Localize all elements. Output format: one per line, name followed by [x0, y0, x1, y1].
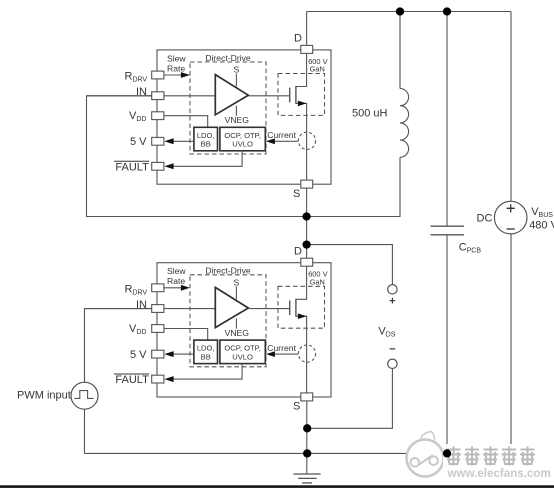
svg-text:S: S — [293, 188, 300, 200]
svg-text:5 V: 5 V — [130, 136, 147, 148]
svg-text:UVLO: UVLO — [232, 352, 253, 361]
block LDO BB (U1) — [194, 127, 218, 151]
page bottom border line — [0, 485, 554, 488]
svg-text:www.elecfans.com: www.elecfans.com — [447, 467, 551, 480]
label VNEG and stub below driver (U2) — [235, 318, 237, 328]
svg-text:PWM input: PWM input — [17, 390, 71, 402]
svg-text:OCP, OTP,: OCP, OTP, — [224, 344, 260, 353]
svg-text:LDO,: LDO, — [197, 131, 215, 140]
svg-text:VBUS: VBUS — [531, 206, 553, 219]
label VNEG and stub below driver (U1) — [235, 106, 237, 116]
watermark elecfans logo — [407, 432, 444, 477]
svg-text:GaN: GaN — [310, 277, 325, 286]
wire capacitor CPCB to bottom rail — [446, 235, 448, 454]
wire PWM source to bottom rail — [84, 409, 86, 453]
svg-text:Rate: Rate — [167, 63, 185, 73]
GaN transistor Q (U1) — [296, 53, 307, 86]
wire IN to driver input (U2) — [87, 308, 216, 310]
DC source VBUS 480 V — [494, 201, 527, 234]
svg-text:DC: DC — [477, 213, 493, 225]
wire RDRV to slew-rate block (U2) — [164, 287, 183, 289]
svg-text:BB: BB — [201, 352, 211, 361]
wire switch node vertical S1-D2 — [306, 188, 308, 258]
capacitor CPCB — [431, 225, 465, 227]
current sensor dashed circle (U2) — [298, 345, 315, 362]
pin FAULT (U2) — [152, 375, 164, 383]
pin FAULT (U1) — [152, 162, 164, 170]
dashed box GaN FET (U2) — [278, 286, 325, 328]
wire VDD to LDO (U1) — [164, 116, 208, 128]
svg-text:VDS: VDS — [378, 325, 395, 338]
pin IN (U1) — [152, 92, 164, 100]
block OCP OTP UVLO (U1) — [220, 127, 265, 151]
svg-text:Current: Current — [267, 130, 296, 140]
wire right rail upper (top rail to DC source) — [510, 12, 512, 202]
block OCP OTP UVLO (U2) — [220, 340, 265, 364]
svg-text:Slew: Slew — [167, 266, 186, 276]
svg-text:Direct-Drive: Direct-Drive — [205, 53, 251, 63]
wire current sense to OCP (U1) — [273, 140, 298, 142]
pin S (U2) — [301, 393, 313, 401]
svg-text:FAULT: FAULT — [115, 161, 149, 173]
driver amplifier triangle (U1) — [215, 75, 248, 115]
svg-text:VNEG: VNEG — [225, 328, 250, 338]
VDS plus probe terminal — [388, 285, 397, 294]
wire driver output to gate (U1) — [248, 95, 289, 97]
wire LDO to 5V pin (U2) — [174, 353, 194, 355]
svg-text:RDRV: RDRV — [125, 71, 148, 84]
pin 5V (U2) — [152, 350, 164, 358]
current sensor dashed circle (U1) — [298, 132, 315, 149]
wire switch node to VDS plus probe — [307, 245, 393, 285]
wire VDS minus probe to source node — [307, 369, 392, 429]
pin VDD (U2) — [152, 325, 164, 333]
svg-text:UVLO: UVLO — [232, 140, 253, 149]
PWM source circle with pulse symbol — [71, 382, 98, 409]
inductor L 500 uH — [399, 12, 401, 89]
wire right rail lower (DC source to bottom rail) — [510, 234, 512, 454]
svg-text:BB: BB — [201, 140, 211, 149]
watermark chinese characters — [443, 444, 538, 468]
pin VDD (U1) — [152, 112, 164, 120]
wire VDD to LDO (U2) — [164, 329, 208, 341]
wire bottom ground rail — [85, 452, 512, 454]
svg-text:D: D — [294, 246, 302, 258]
svg-text:5 V: 5 V — [130, 349, 147, 361]
pin D (U2) — [301, 258, 313, 266]
junction dot source node / VDS- — [303, 424, 311, 432]
svg-text:D: D — [294, 33, 302, 45]
svg-text:GaN: GaN — [310, 65, 325, 74]
junction dot switch node / VDS+ — [302, 240, 310, 248]
svg-text:S: S — [234, 277, 240, 287]
svg-text:FAULT: FAULT — [115, 374, 149, 386]
svg-text:S: S — [293, 401, 300, 413]
VDS minus probe terminal — [390, 348, 396, 350]
wire top bus rail — [307, 11, 511, 13]
ground symbol — [294, 473, 321, 475]
wire S2 to ground — [306, 401, 308, 474]
junction dot top rail / inductor — [396, 7, 404, 15]
wire top rail to capacitor CPCB — [446, 12, 448, 227]
svg-text:S: S — [234, 65, 240, 75]
svg-text:CPCB: CPCB — [459, 241, 482, 254]
junction dot bottom rail / ground — [303, 449, 311, 457]
svg-text:500 uH: 500 uH — [352, 108, 388, 120]
wire driver output to gate (U2) — [248, 308, 289, 310]
junction dot top rail / CPCB — [443, 7, 451, 15]
wire IN to driver input (U1) — [87, 95, 216, 97]
pin S (U1) — [301, 180, 313, 188]
pin RDRV (U2) — [152, 284, 164, 292]
block LDO BB (U2) — [194, 340, 218, 364]
wire switch node to inductor bottom — [307, 157, 400, 216]
svg-text:RDRV: RDRV — [125, 283, 148, 296]
wire LDO to 5V pin (U1) — [174, 140, 194, 142]
junction dot bottom rail / CPCB — [443, 449, 451, 457]
pin 5V (U1) — [152, 137, 164, 145]
svg-text:Rate: Rate — [167, 276, 185, 286]
pin IN (U2) — [152, 305, 164, 313]
junction dot switch node / inductor branch — [302, 212, 310, 220]
gate driver U1 outline — [157, 50, 331, 184]
svg-text:480 V: 480 V — [529, 220, 554, 232]
svg-text:Slew: Slew — [167, 53, 186, 63]
dashed box Direct-Drive (U2) — [190, 275, 266, 367]
pin RDRV (U1) — [152, 71, 164, 79]
svg-text:Direct-Drive: Direct-Drive — [205, 266, 251, 276]
wire current sense to OCP (U2) — [273, 353, 298, 355]
svg-text:VDD: VDD — [129, 323, 146, 336]
svg-text:Current: Current — [267, 343, 296, 353]
driver amplifier triangle (U2) — [215, 287, 248, 327]
svg-text:LDO,: LDO, — [197, 344, 215, 353]
svg-text:IN: IN — [136, 86, 147, 98]
svg-text:IN: IN — [136, 299, 147, 311]
gate driver U2 outline — [157, 263, 331, 397]
svg-text:VNEG: VNEG — [225, 115, 250, 125]
dashed box Direct-Drive (U1) — [190, 62, 266, 154]
wire D1 to top rail — [306, 12, 308, 46]
wire PWM source to IN2 — [85, 309, 152, 383]
wire OCP to FAULT pin (U1) — [174, 151, 243, 167]
wire RDRV to slew-rate block (U1) — [164, 74, 183, 76]
GaN transistor Q (U2) — [296, 266, 307, 299]
pin D (U1) — [301, 45, 313, 53]
svg-text:OCP, OTP,: OCP, OTP, — [224, 131, 260, 140]
dashed box GaN FET (U1) — [278, 74, 325, 116]
wire IN1 tie to switch node — [87, 96, 307, 217]
svg-text:VDD: VDD — [129, 110, 146, 123]
wire OCP to FAULT pin (U2) — [174, 364, 243, 380]
